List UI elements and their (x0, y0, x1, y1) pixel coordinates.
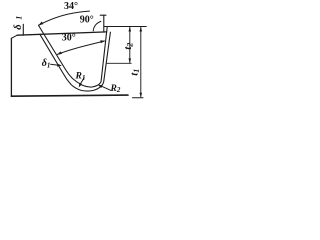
t2 dimension line (129, 27, 131, 62)
top extension line (tip level) (104, 26, 146, 28)
svg-text:t1: t1 (129, 69, 141, 76)
serif dash at top of reference line (100, 14, 106, 16)
workpiece top surface (17, 32, 106, 35)
delta1 leader line (middle) (51, 64, 59, 65)
arrowhead of R2 leader (98, 85, 103, 88)
workpiece left edge (10, 38, 12, 96)
R1 leader line (80, 78, 84, 84)
svg-text:t2: t2 (122, 43, 134, 50)
middle extension line (t2 bottom) (107, 62, 131, 64)
top-left chamfer (11, 35, 17, 38)
R2 leader line (100, 86, 110, 91)
t1 bottom arrowhead (140, 93, 143, 98)
arrowhead of delta1 leader (57, 64, 62, 67)
t2 top arrowhead (129, 27, 132, 32)
svg-text:R2: R2 (110, 84, 121, 94)
svg-text:90°: 90° (80, 15, 94, 26)
t2 bottom arrowhead (129, 58, 132, 63)
arrowhead of 34-degree arc (38, 22, 43, 26)
arrowhead of R1 leader (79, 83, 82, 88)
bottom extension line (t1 bottom) (133, 97, 144, 99)
svg-text:30°: 30° (62, 33, 76, 44)
30-degree angle arc (58, 41, 105, 54)
90-degree reference line (normal to surface) (103, 15, 105, 32)
svg-text:R1: R1 (75, 72, 86, 82)
groove inner profile: left flank extension tip to right flank tip (39, 25, 108, 87)
90-degree angle arc (93, 21, 101, 31)
workpiece bottom edge (11, 95, 128, 96)
34-degree angle arc (39, 11, 90, 25)
svg-text:34°: 34° (64, 1, 78, 12)
arrowhead right of 30-degree arc (100, 40, 105, 43)
svg-text:δ1: δ1 (42, 58, 51, 70)
t1 top arrowhead (140, 27, 143, 32)
arrowhead left of 30-degree arc (57, 51, 62, 55)
svg-text:1: 1 (14, 16, 23, 20)
svg-text:δ: δ (13, 24, 24, 30)
t1 dimension line (140, 27, 142, 97)
delta1 tick on surface (left) (22, 24, 24, 35)
groove outer profile: left flank, R1 root, bottom, R2 root, right flank (40, 32, 111, 91)
